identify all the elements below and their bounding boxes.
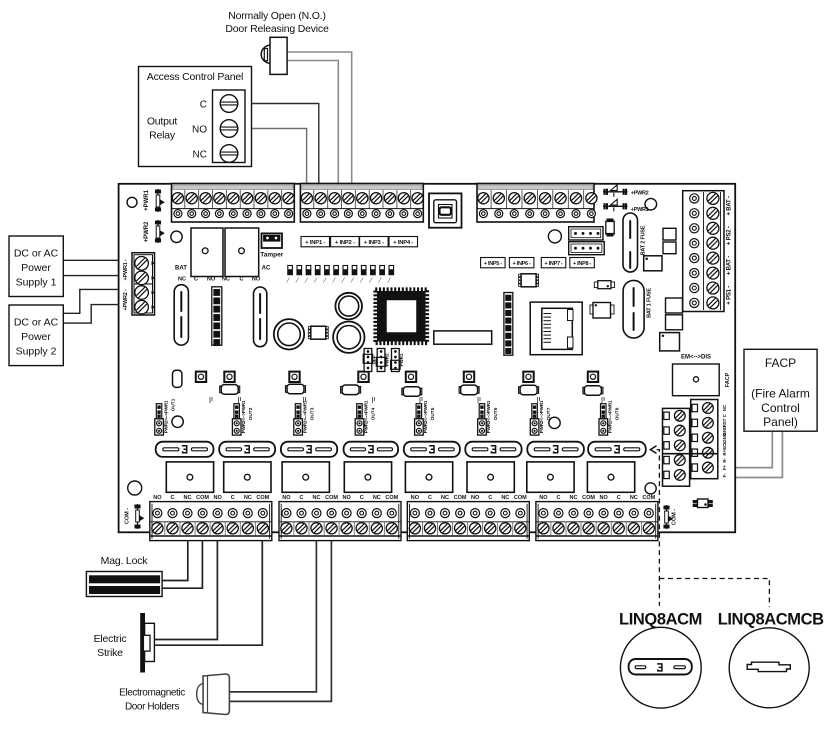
capacitor C13	[666, 315, 683, 330]
tamper switch connector	[262, 233, 283, 248]
fuse BAT 1 FUSE	[623, 280, 644, 338]
AC relay box	[225, 228, 259, 277]
battery relay box BAT	[191, 228, 223, 277]
vertical fuse holder XF1	[174, 285, 188, 346]
LED DS8	[588, 372, 598, 382]
FACP box	[744, 349, 817, 431]
capacitor C-OUT8	[583, 387, 586, 394]
svg-text:FACP: FACP	[765, 356, 796, 370]
svg-text:NO: NO	[411, 495, 420, 501]
svg-text:Supply 2: Supply 2	[16, 346, 57, 358]
svg-text:(Fire Alarm: (Fire Alarm	[751, 387, 810, 401]
svg-text:C: C	[488, 495, 492, 501]
IC U2 (SOIC-8)	[308, 327, 311, 329]
DC or AC power supply 2 box	[9, 305, 63, 366]
capacitor C10	[663, 228, 676, 240]
PCB board outline	[119, 184, 736, 533]
svg-text:+ BAT -: + BAT -	[727, 196, 733, 216]
ethernet jack RJ45	[530, 302, 582, 355]
svg-text:COM: COM	[642, 495, 655, 501]
inductor L3	[333, 322, 364, 353]
svg-text:C: C	[557, 495, 561, 501]
svg-text:DC or AC: DC or AC	[14, 317, 59, 329]
capacitor C12	[666, 298, 683, 313]
svg-text:COM -: COM -	[125, 508, 131, 524]
diode +PWR1 (top right)	[603, 205, 628, 207]
capacitor C-OUT4	[341, 387, 344, 394]
terminal strip TS3 (top right, 8 pos)	[477, 184, 594, 223]
relay K5	[405, 462, 452, 492]
svg-text:NO: NO	[342, 495, 351, 501]
LED DS2	[224, 372, 234, 382]
relay K2	[224, 462, 271, 492]
dashed leader line to LINQ8ACM	[657, 450, 660, 606]
DC or AC power supply 1 box	[9, 236, 63, 297]
svg-text:Strike: Strike	[97, 647, 123, 659]
svg-text:NC: NC	[441, 495, 449, 501]
svg-text:COM: COM	[514, 495, 527, 501]
svg-text:+ INP2 -: + INP2 -	[335, 240, 355, 246]
pin header JP-A	[212, 287, 222, 345]
svg-text:NC: NC	[722, 405, 727, 411]
svg-text:Door Holders: Door Holders	[125, 702, 180, 713]
wire door-release device upper	[287, 52, 352, 185]
svg-text:OUT2: OUT2	[248, 407, 254, 420]
svg-text:COM: COM	[196, 495, 209, 501]
svg-text:PWR2<-->PWR1: PWR2<-->PWR1	[423, 400, 428, 433]
svg-text:COM -: COM -	[672, 509, 678, 525]
relay K3	[282, 462, 329, 492]
LINQ8ACM fuse detail circle	[620, 627, 701, 708]
wire mag lock NC	[162, 539, 188, 581]
fuse F7	[527, 442, 584, 457]
svg-text:NO: NO	[252, 277, 261, 283]
svg-text:+ PS1 -: + PS1 -	[727, 286, 733, 305]
labels +INP5- to +INP8-	[481, 258, 506, 268]
svg-text:+PWR2: +PWR2	[631, 191, 649, 197]
mounting hole near strip1	[171, 231, 182, 242]
mounting hole top-right	[645, 198, 657, 210]
svg-text:LINQ8ACMCB: LINQ8ACMCB	[718, 611, 824, 629]
component Q-C (bottom right)	[698, 499, 709, 508]
access control panel box	[139, 67, 252, 167]
fuse F3	[281, 442, 337, 457]
mounting hole OUT1	[172, 416, 183, 427]
fuse F2	[219, 442, 275, 457]
svg-text:OUT7: OUT7	[546, 407, 552, 420]
svg-text:PWR2<-->PWR1: PWR2<-->PWR1	[364, 400, 369, 433]
svg-text:DC or AC: DC or AC	[14, 248, 59, 260]
fuse BAT 2 FUSE	[623, 213, 638, 272]
capacitor C-OUT7	[519, 387, 522, 394]
svg-text:COM: COM	[325, 495, 338, 501]
LED DS1	[196, 372, 206, 382]
fuse F8	[588, 442, 646, 457]
svg-text:GND: GND	[722, 433, 727, 443]
inductor L2	[335, 293, 362, 320]
mounting hole bottom-right	[645, 483, 656, 494]
svg-text:PWR2<-->PWR1: PWR2<-->PWR1	[486, 400, 491, 433]
LED DS6	[464, 372, 474, 382]
FACP terminal block right column (5 pos)	[691, 400, 718, 479]
power distribution terminal block TB-R (8 pos)	[683, 191, 724, 312]
svg-text:NO: NO	[213, 495, 222, 501]
svg-text:AC: AC	[262, 266, 271, 272]
svg-text:COM: COM	[256, 495, 269, 501]
electric strike body	[141, 613, 145, 672]
IC U4	[644, 256, 662, 271]
svg-text:Supply 1: Supply 1	[16, 276, 57, 288]
relay K1	[166, 462, 213, 492]
svg-text:Panel): Panel)	[763, 415, 798, 429]
svg-text:NC: NC	[222, 277, 230, 283]
svg-text:NO: NO	[207, 277, 216, 283]
svg-text:BAT 1 FUSE: BAT 1 FUSE	[647, 288, 653, 318]
svg-text:NC: NC	[373, 495, 381, 501]
svg-text:Mag. Lock: Mag. Lock	[101, 555, 149, 567]
svg-text:OUT5: OUT5	[430, 407, 436, 420]
component Q-D (2-pin)	[594, 282, 598, 288]
mag lock body	[86, 572, 162, 597]
svg-text:R+: R+	[722, 449, 727, 455]
svg-text:+PWR1: +PWR1	[144, 189, 150, 211]
output terminal strip TB1 (8 pos)	[150, 502, 272, 541]
svg-text:F+: F+	[722, 465, 727, 471]
fuse F6	[465, 442, 521, 457]
wire FACP F-	[718, 431, 783, 477]
svg-text:C: C	[428, 495, 432, 501]
jumpers OFF / PWR2 / PWR1	[364, 349, 372, 372]
svg-text:OUT8: OUT8	[615, 407, 621, 420]
svg-text:C: C	[231, 495, 235, 501]
svg-text:OUT4: OUT4	[371, 407, 377, 420]
terminal strip TS2 (top middle, 9 pos)	[300, 184, 423, 223]
wire electric strike NO	[150, 539, 217, 640]
svg-text:NO: NO	[192, 125, 207, 136]
status LED row D1-D12	[288, 266, 293, 275]
svg-text:ECL: ECL	[722, 441, 727, 450]
svg-text:LINQ8ACM: LINQ8ACM	[619, 611, 702, 629]
wire door-release device lower	[287, 61, 338, 186]
output terminal strip TB4 (8 pos)	[536, 502, 658, 541]
output terminal strip TB2 (8 pos)	[279, 502, 401, 541]
power input terminal block TB-PWR (4 pos)	[132, 253, 155, 315]
connector J5 (4-pin)	[569, 227, 603, 240]
svg-text:NC: NC	[193, 150, 207, 161]
svg-text:+ PS2 -: + PS2 -	[727, 226, 733, 245]
svg-text:+PWR1 -: +PWR1 -	[123, 259, 129, 280]
wire PS2 +	[63, 289, 133, 313]
svg-text:Control: Control	[761, 401, 800, 415]
svg-text:+ INP5 -: + INP5 -	[484, 261, 502, 267]
inductor L1	[274, 319, 304, 349]
fuse F1	[156, 442, 214, 457]
svg-text:Output: Output	[147, 116, 178, 128]
svg-text:COM: COM	[582, 495, 595, 501]
svg-text:+ INP6 -: + INP6 -	[513, 261, 531, 267]
IC U3 (SOIC-8)	[519, 274, 522, 276]
wire door holder COM	[229, 539, 331, 701]
svg-text:Electric: Electric	[94, 633, 127, 645]
svg-text:NC: NC	[630, 495, 638, 501]
svg-text:NC: NC	[570, 495, 578, 501]
LED DS7	[523, 372, 533, 382]
relay K6	[467, 462, 514, 492]
fuse F5	[404, 442, 460, 457]
svg-text:BAT 2 FUSE: BAT 2 FUSE	[641, 225, 647, 255]
LED DS4	[358, 372, 368, 382]
svg-text:F-: F-	[722, 473, 727, 478]
relay K8	[587, 462, 634, 492]
svg-text:NC: NC	[244, 495, 252, 501]
mounting hole top-left	[127, 197, 137, 207]
USB-B connector J-USB	[429, 193, 462, 227]
svg-text:Electromagnetic: Electromagnetic	[119, 688, 185, 699]
LED DS5	[406, 372, 416, 382]
svg-text:NC: NC	[501, 495, 509, 501]
wire PS1 -	[63, 275, 133, 277]
svg-text:PWR2: PWR2	[385, 353, 390, 366]
svg-text:+ INP3 -: + INP3 -	[364, 240, 384, 246]
svg-text:+ INP1 -: + INP1 -	[305, 240, 325, 246]
svg-text:R-: R-	[722, 458, 727, 463]
svg-text:Door Releasing Device: Door Releasing Device	[225, 23, 329, 35]
LED DS3	[289, 372, 299, 382]
svg-text:+ INP8 -: + INP8 -	[573, 261, 591, 267]
terminal strip TS1 (top left, 9 pos)	[172, 184, 295, 223]
output terminal strip TB3 (8 pos)	[407, 502, 529, 541]
svg-text:OUT3: OUT3	[309, 407, 315, 420]
mounting hole OUT7	[549, 417, 560, 428]
svg-text:NO: NO	[471, 495, 480, 501]
diode +PWR2 (top right)	[603, 191, 628, 193]
svg-text:COM: COM	[454, 495, 467, 501]
FACP terminal block left column (5 pos)	[663, 408, 690, 486]
component Q-B	[590, 305, 594, 314]
svg-text:+PWR2: +PWR2	[144, 221, 150, 243]
connector J6 (4-pin)	[569, 242, 605, 255]
capacitor C11	[663, 242, 676, 254]
svg-text:+ INP7 -: + INP7 -	[545, 261, 563, 267]
svg-text:C: C	[300, 495, 304, 501]
wire mag lock COM	[162, 539, 202, 588]
mounting hole bottom-left	[128, 481, 142, 495]
svg-text:OUT1: OUT1	[170, 398, 176, 411]
wire PS2 -	[63, 305, 133, 324]
svg-text:C: C	[722, 414, 727, 417]
svg-text:NC: NC	[178, 277, 186, 283]
mounting hole near strip3	[548, 230, 561, 243]
svg-text:NC: NC	[184, 495, 192, 501]
svg-text:C: C	[240, 277, 244, 283]
relay K7	[527, 462, 574, 492]
svg-text:PWR2<-->PWR1: PWR2<-->PWR1	[539, 400, 544, 433]
svg-text:Power: Power	[21, 331, 51, 343]
capacitor C-OUT6	[459, 387, 462, 394]
MCU U1 (QFP)	[375, 289, 427, 343]
svg-text:NO: NO	[599, 495, 608, 501]
svg-text:C: C	[360, 495, 364, 501]
svg-text:+PWR2 -: +PWR2 -	[123, 289, 129, 310]
svg-text:Power: Power	[21, 262, 51, 274]
svg-text:Normally Open (N.O.): Normally Open (N.O.)	[228, 10, 326, 22]
svg-text:+ INP4 -: + INP4 -	[393, 240, 413, 246]
ACP relay terminal block	[213, 90, 246, 163]
svg-text:Relay: Relay	[149, 130, 176, 142]
svg-text:Tamper: Tamper	[260, 252, 283, 259]
capacitor C-OUT2	[220, 386, 223, 393]
labels +INP1- to +INP4-	[301, 237, 330, 247]
diode COM- (right)	[666, 505, 668, 529]
svg-text:PWR2<-->PWR1: PWR2<-->PWR1	[608, 400, 613, 433]
relay K4	[344, 462, 391, 492]
svg-text:Access Control Panel: Access Control Panel	[147, 71, 243, 83]
svg-text:OFF: OFF	[371, 355, 376, 364]
wire electric strike COM	[154, 539, 262, 645]
crystal Y1	[434, 331, 492, 344]
svg-text:NO: NO	[282, 495, 291, 501]
svg-text:NO: NO	[153, 495, 162, 501]
wire PS1 +	[63, 259, 133, 261]
electromagnetic door holder body	[203, 674, 229, 715]
capacitor C-OUT3	[286, 386, 289, 393]
svg-text:FACP: FACP	[725, 372, 731, 387]
svg-text:+PWR1: +PWR1	[631, 207, 649, 213]
wire ACP C to input terminal	[245, 104, 319, 186]
svg-text:PWR1: PWR1	[399, 353, 404, 366]
wire door holder NC	[229, 539, 316, 692]
component Q-A	[606, 221, 614, 234]
svg-text:OUT6: OUT6	[493, 407, 499, 420]
svg-text:BAT: BAT	[175, 266, 187, 272]
vertical fuse holder XF2	[254, 287, 267, 347]
svg-text:EM<-->DIS: EM<-->DIS	[681, 355, 711, 361]
svg-text:NO: NO	[539, 495, 548, 501]
svg-text:C: C	[617, 495, 621, 501]
pin header JP-B	[504, 293, 513, 356]
svg-text:C: C	[194, 277, 198, 283]
door releasing device (push button)	[261, 45, 270, 63]
dashed leader line to LINQ8ACMCB	[659, 579, 769, 607]
svg-text:PWR2<-->PWR1: PWR2<-->PWR1	[302, 400, 307, 433]
svg-text:C: C	[171, 495, 175, 501]
capacitor C-OUT5	[402, 388, 405, 395]
wire FACP F+	[718, 431, 773, 467]
svg-text:COM: COM	[385, 495, 398, 501]
svg-text:C: C	[200, 100, 207, 111]
svg-text:+ BAT -: + BAT -	[727, 256, 733, 276]
svg-text:PWR2<-->PWR1: PWR2<-->PWR1	[241, 400, 246, 433]
IC U5	[660, 333, 680, 351]
capacitor C-OUT1	[173, 370, 182, 387]
svg-text:NC: NC	[313, 495, 321, 501]
LINQ8ACMCB breaker detail circle	[729, 628, 809, 708]
svg-text:PWR2<-->PWR1: PWR2<-->PWR1	[163, 400, 168, 433]
wire ACP NO to input terminal	[245, 129, 307, 186]
fuse F4	[344, 442, 399, 457]
fuse type callout arrow	[650, 446, 656, 454]
